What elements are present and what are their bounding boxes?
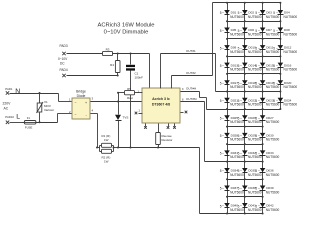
svg-text:5: 5 [255,99,257,103]
svg-text:5: 5 [220,81,222,85]
svg-text:5: 5 [238,134,240,138]
svg-text:FUSE: FUSE [25,125,33,129]
svg-text:5: 5 [255,134,257,138]
svg-text:NUT5600: NUT5600 [248,15,262,19]
svg-text:5: 5 [255,64,257,68]
svg-text:5: 5 [220,134,222,138]
svg-text:5: 5 [255,11,257,15]
svg-text:NUT5600: NUT5600 [248,85,262,89]
svg-text:5: 5 [220,117,222,121]
svg-text:Varistor: Varistor [44,108,54,112]
svg-text:DT3607 4/8: DT3607 4/8 [152,103,170,107]
svg-text:NUT5600: NUT5600 [284,67,298,71]
svg-text:OUT#M: OUT#M [186,97,197,101]
svg-text:R3: R3 [106,48,110,52]
svg-text:Rset: Rset [127,96,133,100]
svg-text:NUT5600: NUT5600 [266,155,280,159]
svg-text:100nF: 100nF [135,76,144,80]
svg-text:NUT5600: NUT5600 [230,138,244,142]
svg-text:Diode: Diode [77,94,86,98]
svg-text:5: 5 [255,81,257,85]
svg-text:PAD3: PAD3 [60,44,68,48]
svg-text:NUT5600: NUT5600 [248,67,262,71]
svg-text:5: 5 [220,187,222,191]
svg-text:220V: 220V [3,102,12,106]
svg-text:5: 5 [238,169,240,173]
svg-text:F1: F1 [27,116,31,120]
svg-text:5: 5 [273,46,275,50]
svg-text:NUT5600: NUT5600 [230,208,244,212]
svg-text:NUT5600: NUT5600 [230,50,244,54]
svg-text:NUT5600: NUT5600 [284,32,298,36]
svg-text:NUT5600: NUT5600 [248,103,262,107]
svg-text:NUT5600: NUT5600 [230,85,244,89]
svg-text:R5: R5 [127,87,131,91]
svg-text:NUT5600: NUT5600 [266,15,280,19]
svg-text:5: 5 [238,152,240,156]
svg-text:5: 5 [220,29,222,33]
svg-text:5: 5 [255,117,257,121]
svg-text:Resistor: Resistor [162,138,173,142]
svg-text:NUT5600: NUT5600 [248,138,262,142]
svg-text:5: 5 [255,46,257,50]
svg-text:NUT5600: NUT5600 [266,208,280,212]
svg-text:5: 5 [255,187,257,191]
svg-text:5: 5 [238,11,240,15]
svg-text:PAD4: PAD4 [60,68,68,72]
svg-text:NUT5600: NUT5600 [266,103,280,107]
svg-text:~: ~ [75,100,77,104]
svg-text:5: 5 [273,99,275,103]
svg-text:5: 5 [255,29,257,33]
svg-text:NUT5600: NUT5600 [284,50,298,54]
svg-text:PAD10: PAD10 [5,115,14,119]
svg-text:0~10V: 0~10V [58,57,68,61]
svg-text:5: 5 [220,46,222,50]
svg-text:5: 5 [220,204,222,208]
svg-text:NUT5600: NUT5600 [230,120,244,124]
svg-text:5: 5 [220,11,222,15]
svg-text:NUT5600: NUT5600 [230,103,244,107]
svg-text:5: 5 [238,187,240,191]
svg-text:NUT5600: NUT5600 [230,15,244,19]
svg-text:NUT5600: NUT5600 [230,190,244,194]
svg-text:5: 5 [238,117,240,121]
svg-text:NUT5600: NUT5600 [230,173,244,177]
svg-text:1W: 1W [104,138,109,142]
svg-text:NUT5600: NUT5600 [266,85,280,89]
svg-text:~: ~ [75,113,77,117]
svg-text:5: 5 [273,81,275,85]
svg-text:L: L [16,114,20,121]
svg-text:5: 5 [255,152,257,156]
svg-text:5: 5 [238,99,240,103]
svg-text:OUT#1: OUT#1 [186,49,196,53]
svg-text:5: 5 [273,64,275,68]
svg-text:NUT5600: NUT5600 [266,120,280,124]
svg-text:OUT#2: OUT#2 [186,71,196,75]
svg-text:TVS: TVS [123,116,129,120]
svg-text:NUT5600: NUT5600 [284,15,298,19]
svg-text:NUT5600: NUT5600 [266,50,280,54]
svg-text:NUT5600: NUT5600 [266,173,280,177]
svg-text:5: 5 [273,11,275,15]
svg-text:NUT5600: NUT5600 [266,32,280,36]
svg-text:5: 5 [220,99,222,103]
svg-text:NUT5600: NUT5600 [230,67,244,71]
svg-text:0~10V Dimmable: 0~10V Dimmable [104,30,149,36]
svg-text:NUT5600: NUT5600 [266,67,280,71]
svg-text:5: 5 [238,29,240,33]
svg-text:NUT5600: NUT5600 [248,50,262,54]
svg-text:5: 5 [255,204,257,208]
svg-text:ACRich3 16W Module: ACRich3 16W Module [97,23,154,29]
svg-text:Acrich 3 Ic: Acrich 3 Ic [152,97,170,101]
svg-text:5: 5 [238,46,240,50]
svg-text:R4: R4 [110,63,114,67]
svg-text:5: 5 [220,64,222,68]
svg-text:NUT5600: NUT5600 [284,103,298,107]
svg-text:NUT5600: NUT5600 [248,208,262,212]
svg-text:NUT5600: NUT5600 [284,85,298,89]
svg-text:NUT5600: NUT5600 [266,190,280,194]
svg-text:5: 5 [273,29,275,33]
svg-text:OUT#H: OUT#H [186,87,196,91]
svg-text:5: 5 [238,204,240,208]
svg-text:5: 5 [220,152,222,156]
svg-text:+: + [85,101,87,105]
svg-text:5: 5 [238,64,240,68]
svg-text:1W: 1W [104,160,109,164]
svg-text:DC: DC [60,62,65,66]
svg-text:NUT5600: NUT5600 [230,155,244,159]
svg-text:5: 5 [220,169,222,173]
svg-text:5: 5 [255,169,257,173]
svg-text:NUT5600: NUT5600 [248,173,262,177]
svg-text:NUT5600: NUT5600 [266,138,280,142]
svg-text:5: 5 [238,81,240,85]
svg-text:PAD1: PAD1 [5,87,13,91]
svg-text:NUT5600: NUT5600 [230,32,244,36]
svg-text:AC: AC [4,107,9,111]
